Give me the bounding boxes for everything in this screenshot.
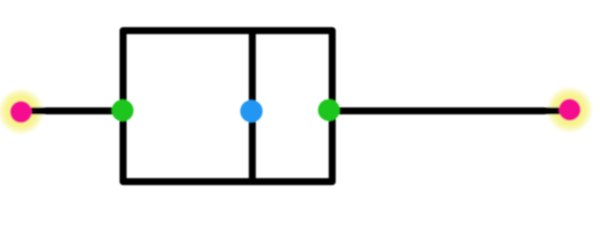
median line <box>249 31 256 182</box>
node green right <box>318 99 340 121</box>
node pink left <box>10 101 32 123</box>
wire right whisker <box>332 107 570 114</box>
node pink right <box>559 99 581 121</box>
node blue <box>240 100 262 122</box>
box <box>123 31 332 182</box>
glow left <box>0 87 46 137</box>
node green left <box>112 100 134 122</box>
wire left whisker <box>21 107 123 114</box>
glow right <box>545 85 595 135</box>
